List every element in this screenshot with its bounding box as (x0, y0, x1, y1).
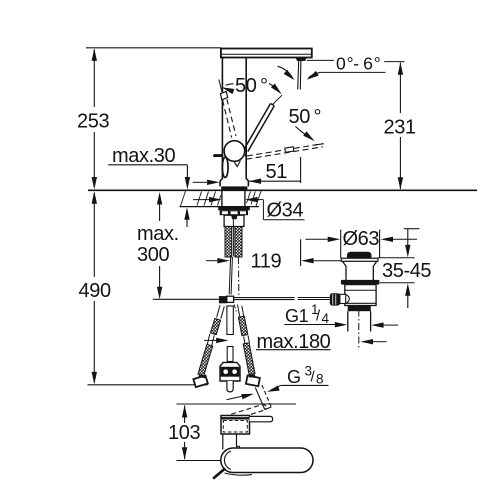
braided hose columns (225, 227, 232, 258)
body left edge (220, 58, 222, 187)
notch below ball (234, 161, 241, 167)
hanging pin (214, 469, 224, 478)
lever arm right (250, 416, 273, 421)
side port + knurled knob (340, 294, 346, 303)
svg-text:Ø34: Ø34 (267, 200, 304, 222)
lower body (345, 285, 376, 306)
handle lever solid (248, 106, 274, 152)
svg-text:50°: 50° (289, 106, 322, 128)
spout bar (221, 49, 312, 58)
svg-text:G: G (287, 367, 301, 387)
lift rod dash-dot (237, 257, 240, 295)
svg-text:0°- 6°: 0°- 6° (336, 53, 380, 73)
svg-text:50°: 50° (235, 75, 268, 97)
plug cap (dark) (348, 252, 371, 258)
drain bottom band (348, 306, 371, 312)
svg-text:490: 490 (79, 280, 111, 302)
oval base (spout from top) (221, 448, 313, 473)
neck (222, 434, 224, 450)
dashed lever upper-left cap (220, 91, 227, 99)
svg-text:G1: G1 (285, 306, 309, 326)
tailpipe (347, 311, 349, 331)
body right edge (246, 58, 248, 187)
base arrows (left inward, right = 51 arrow) (193, 181, 207, 183)
svg-text:51: 51 (266, 161, 288, 183)
lever clevis at ball (243, 146, 246, 157)
flange band (341, 280, 380, 285)
neck funnel (343, 261, 347, 280)
dashed lever horizontal right (247, 144, 323, 156)
svg-text:103: 103 (168, 422, 200, 444)
svg-text:4: 4 (322, 311, 330, 326)
deck hatching left (181, 191, 262, 206)
svg-text:35-45: 35-45 (382, 260, 431, 282)
svg-text:300: 300 (137, 244, 169, 266)
solid tip of horizontal lever (315, 144, 324, 145)
svg-text:8: 8 (316, 372, 323, 387)
svg-text:253: 253 (77, 111, 109, 133)
svg-text:Ø63: Ø63 (343, 228, 380, 250)
dashed lever axis extension (219, 80, 223, 97)
top-view body square (221, 416, 250, 435)
svg-text:231: 231 (384, 117, 416, 139)
cross fitting (219, 296, 227, 303)
under-oval line (225, 473, 253, 475)
nipple tube G3/8 (255, 388, 264, 410)
dashed diagonal lever (top view) (224, 405, 263, 417)
svg-text:max.30: max.30 (112, 145, 175, 167)
horizontal lever end cap (285, 147, 294, 153)
stream line (298, 61, 299, 90)
spout inner line (222, 53, 312, 55)
svg-text:max.: max. (137, 223, 179, 245)
neck tab (237, 446, 240, 449)
lever tip extension (272, 95, 282, 104)
flange top rim (341, 258, 378, 261)
thin hose lines below (left pair) (229, 257, 230, 295)
aerator (295, 58, 307, 62)
ball joint (224, 141, 245, 162)
hook on left of body (215, 154, 222, 157)
dashed lever upper-left (227, 99, 236, 136)
svg-text:119: 119 (251, 251, 282, 273)
